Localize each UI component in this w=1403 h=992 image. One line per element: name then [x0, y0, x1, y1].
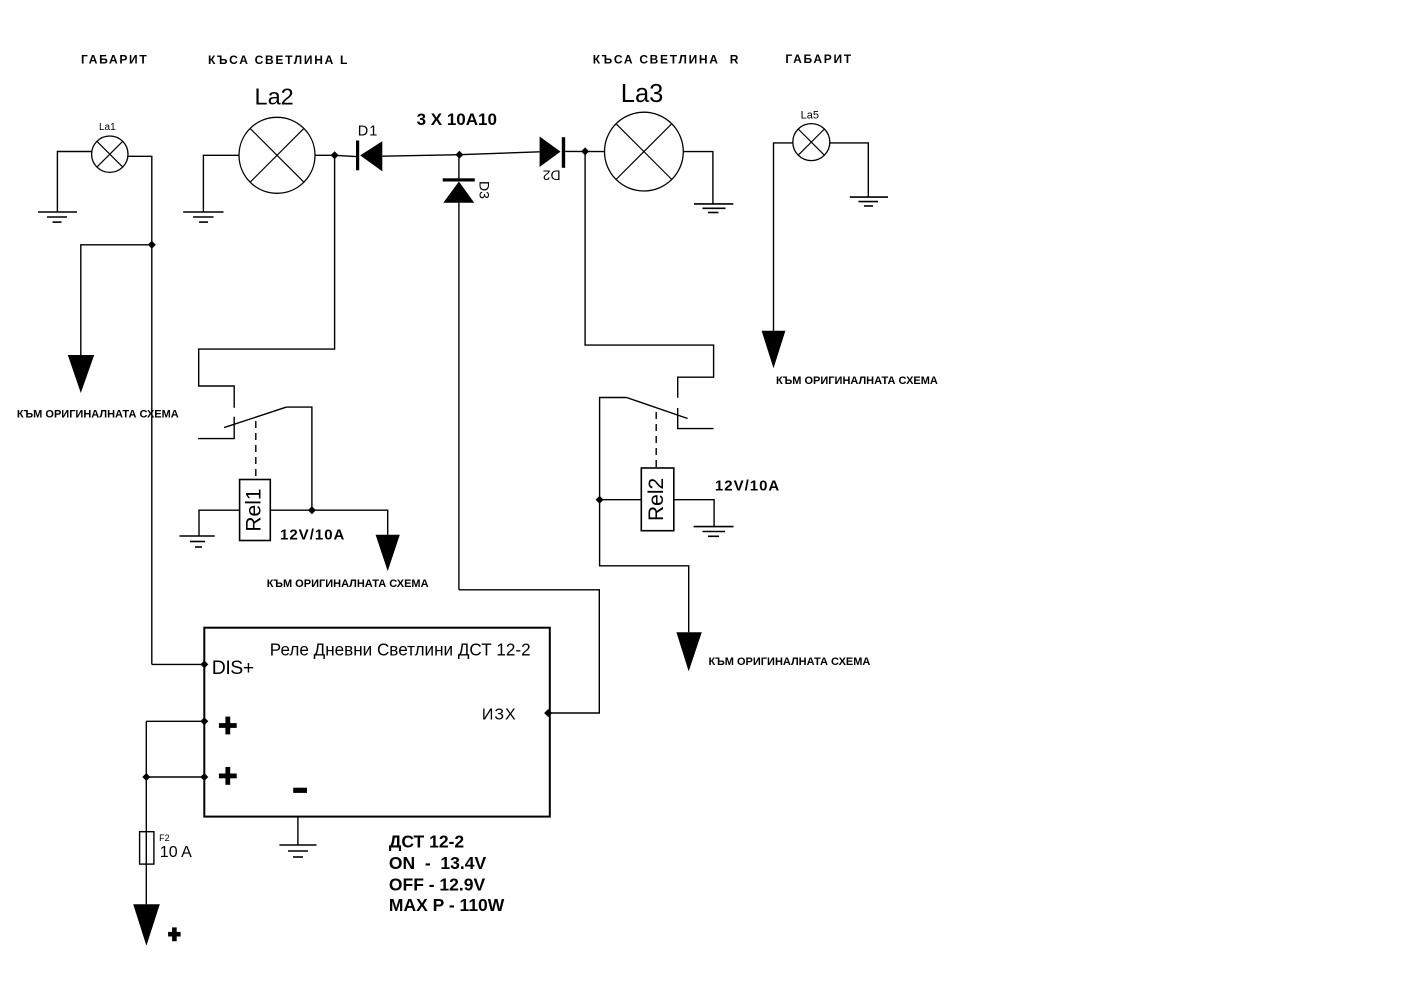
svg-text:12V/10A: 12V/10A	[715, 477, 780, 494]
node junction La3 left	[581, 147, 589, 155]
relay coil Rel2	[641, 468, 674, 531]
wire node to D2	[459, 152, 539, 155]
svg-text:КЪМ ОРИГИНАЛНАТА СХЕМА: КЪМ ОРИГИНАЛНАТА СХЕМА	[267, 578, 429, 590]
svg-text:La5: La5	[801, 110, 819, 122]
lamp La1	[92, 122, 128, 173]
wire La2 right	[315, 154, 335, 156]
svg-text:ГАБАРИТ: ГАБАРИТ	[81, 53, 148, 67]
svg-text:DIS+: DIS+	[212, 657, 254, 679]
node junction La1 branch	[148, 241, 156, 249]
relay contact 2 pivot terminal	[678, 408, 714, 429]
wire plus2	[146, 776, 204, 778]
svg-text:КЪСА СВЕТЛИНА R: КЪСА СВЕТЛИНА R	[593, 53, 740, 67]
arrow to original schema La5	[762, 331, 786, 368]
svg-text:Rel2: Rel2	[645, 478, 668, 521]
svg-text:D1: D1	[358, 124, 379, 140]
lamp La2	[239, 117, 315, 193]
node DIS+ terminal	[200, 660, 208, 668]
wire La5 left to arrow	[774, 143, 793, 331]
svg-text:MAX P - 110W: MAX P - 110W	[389, 895, 505, 915]
node junction Rel1 output	[308, 506, 316, 514]
wire branch to arrow1	[81, 245, 152, 355]
svg-text:КЪМ ОРИГИНАЛНАТА СХЕМА: КЪМ ОРИГИНАЛНАТА СХЕМА	[17, 409, 179, 421]
arrow battery plus	[133, 904, 160, 946]
ground control box	[279, 845, 316, 857]
relay contact 1 blade	[224, 407, 286, 428]
svg-text:КЪСА СВЕТЛИНА L: КЪСА СВЕТЛИНА L	[208, 53, 349, 67]
relay contact 1 pivot terminal	[198, 417, 234, 439]
node plus1 terminal	[200, 717, 208, 725]
diode D1	[356, 124, 382, 172]
node junction La2 right	[331, 151, 339, 159]
svg-text:La1: La1	[99, 122, 116, 133]
arrow to original schema Rel2	[676, 632, 701, 671]
diode D2	[540, 137, 566, 184]
svg-text:Реле Дневни Светлини ДСТ 12-2: Реле Дневни Светлини ДСТ 12-2	[270, 640, 531, 659]
fuse F2	[140, 832, 193, 864]
wire La3 junction down to relay contact 2	[585, 151, 714, 397]
svg-text:D3: D3	[476, 181, 492, 199]
label plus terminal 2	[219, 767, 237, 785]
wire La5 right	[830, 143, 869, 197]
wire contact 1 output	[286, 407, 312, 510]
wire box ground stem	[297, 817, 299, 845]
wire plus1	[146, 720, 204, 722]
svg-text:КЪМ ОРИГИНАЛНАТА СХЕМА: КЪМ ОРИГИНАЛНАТА СХЕМА	[776, 375, 938, 387]
wire D2 to La3	[565, 150, 604, 152]
wire La2 junction down to relay contact 1	[199, 155, 335, 407]
ground La3	[694, 204, 733, 213]
svg-text:F2: F2	[159, 833, 170, 843]
svg-text:ИЗХ: ИЗХ	[482, 707, 517, 724]
wire DIS+	[152, 663, 205, 665]
relay Rel2 actuation dashed link	[655, 412, 657, 468]
svg-text:ДСТ 12-2: ДСТ 12-2	[389, 832, 465, 852]
wire La1 right down to DIS+	[128, 156, 152, 664]
arrow to original schema Rel1	[376, 535, 400, 571]
wire D3 anode down	[458, 203, 460, 590]
svg-text:ГАБАРИТ: ГАБАРИТ	[785, 52, 852, 66]
label battery plus sign	[168, 927, 181, 941]
wire La3 right	[683, 152, 713, 204]
node junction fuse feed	[142, 773, 150, 781]
relay coil Rel1	[240, 480, 271, 541]
svg-text:La3: La3	[621, 80, 664, 108]
lamp La5	[793, 124, 830, 161]
control unit box ДСТ 12-2	[204, 628, 550, 817]
svg-text:12V/10A: 12V/10A	[280, 527, 345, 544]
node junction D3 tap	[455, 151, 463, 159]
relay contact 2 blade	[627, 398, 688, 419]
wire Rel1 coil left to ground	[199, 510, 240, 536]
ground La1	[38, 212, 77, 222]
ground Rel1	[180, 536, 215, 547]
label plus terminal 1	[219, 717, 237, 735]
lamp La3	[605, 112, 684, 191]
svg-text:La2: La2	[255, 83, 294, 109]
svg-text:OFF - 12.9V: OFF - 12.9V	[389, 874, 486, 894]
node plus2 terminal	[200, 773, 208, 781]
svg-text:ON - 13.4V: ON - 13.4V	[389, 853, 487, 873]
diode D3	[443, 155, 493, 203]
wire La2 left	[203, 155, 239, 212]
wire Rel2 coil left down to arrow	[600, 500, 689, 633]
svg-text:3 X 10A10: 3 X 10A10	[417, 110, 497, 129]
svg-text:10 A: 10 A	[160, 844, 192, 861]
relay Rel1 actuation dashed link	[255, 421, 257, 479]
wire ИЗХ to D3	[459, 590, 599, 713]
wire Rel1 coil right to arrow	[270, 510, 387, 535]
svg-text:D2: D2	[543, 167, 561, 183]
ground La2	[183, 212, 223, 222]
wire La1 left	[57, 152, 91, 213]
wire La2 junction to D1	[335, 155, 357, 156]
svg-text:КЪМ ОРИГИНАЛНАТА СХЕМА: КЪМ ОРИГИНАЛНАТА СХЕМА	[709, 656, 871, 668]
node junction Rel2 left	[596, 496, 604, 504]
ground Rel2	[694, 527, 734, 537]
arrow to original schema 1	[68, 355, 94, 393]
label minus terminal	[293, 788, 307, 793]
wire supply vertical	[145, 721, 147, 904]
svg-text:Rel1: Rel1	[243, 488, 266, 531]
wire contact 2 output	[600, 398, 627, 500]
node ИЗХ terminal	[544, 709, 552, 717]
wire Rel2 coil right to ground	[674, 500, 714, 527]
ground La5	[850, 197, 888, 206]
wire D1 to node D3	[382, 155, 459, 157]
